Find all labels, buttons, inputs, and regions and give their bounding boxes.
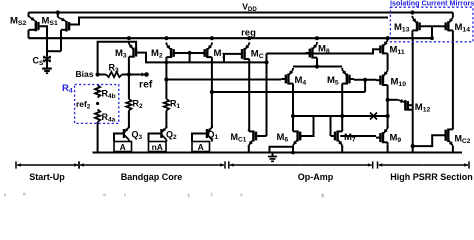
label M10 xyxy=(391,77,407,89)
wire M10 drain column xyxy=(387,87,389,128)
wire M7-M9 gate line xyxy=(340,135,376,137)
wire gate node drop xyxy=(189,53,191,62)
wire MC1 source xyxy=(248,146,250,153)
label M2 xyxy=(151,48,163,60)
node output net junction xyxy=(264,60,268,64)
box isolating mirrors dashed xyxy=(390,7,473,42)
node reg-M3 junction xyxy=(127,36,131,40)
wire R1 to Q2 xyxy=(165,111,167,129)
wire MS2 gate down xyxy=(38,26,47,56)
svg-text:A: A xyxy=(198,142,204,152)
label MS1 xyxy=(42,16,58,28)
wire Q3 emitter xyxy=(128,140,130,142)
label CS xyxy=(33,56,45,68)
wire MC gate jog xyxy=(224,54,238,63)
wire gates to reg drop xyxy=(431,26,433,38)
wire Q1 emitter xyxy=(211,140,213,142)
dimension high psrr xyxy=(378,161,470,168)
transistor MC xyxy=(238,42,250,61)
wire Q2 emitter xyxy=(165,140,167,142)
wire Q3 base xyxy=(114,134,123,142)
transistor M11 xyxy=(376,39,388,56)
transistor M6 xyxy=(293,130,305,148)
node bridge junction xyxy=(315,64,319,68)
node reg-M11 junction xyxy=(386,36,390,40)
svg-text:Bandgap Core: Bandgap Core xyxy=(121,172,183,182)
wire Q1 base xyxy=(192,134,206,142)
node gates-reg junction xyxy=(430,36,434,40)
transistor M7 xyxy=(331,130,343,148)
wire R4a to ground rail xyxy=(97,122,99,153)
box area nA Q2 xyxy=(149,142,167,152)
wire M7 gate stub xyxy=(330,116,332,136)
label reg xyxy=(241,28,256,39)
wire M6 source bend xyxy=(270,146,294,153)
node VDD-M13 junction xyxy=(410,10,414,14)
svg-text:High PSRR Section: High PSRR Section xyxy=(390,172,473,182)
box area A Q3 xyxy=(114,142,132,152)
transistor M9 xyxy=(376,127,388,145)
label M3 xyxy=(115,48,127,60)
wire M2 drain down xyxy=(165,59,167,99)
svg-text:nA: nA xyxy=(152,142,163,152)
transistor M12 xyxy=(398,99,413,111)
ground rail bottom xyxy=(93,151,463,153)
node M12 source tap xyxy=(386,98,390,102)
node gate junction xyxy=(188,51,192,55)
label M4 xyxy=(295,75,307,87)
transistor M2 xyxy=(166,43,178,60)
wire M12 source lead xyxy=(388,99,398,101)
node M6 source junction xyxy=(291,151,295,155)
label R3 xyxy=(109,63,120,75)
transistor M10 xyxy=(376,69,388,87)
transistor MC2 xyxy=(441,128,453,148)
label M11 xyxy=(390,45,405,57)
node reg-M8 junction xyxy=(315,36,319,40)
node M2 drain cross xyxy=(165,61,169,65)
wire VDD left drop xyxy=(28,13,30,17)
marker comp cross xyxy=(370,113,377,120)
wire MS1 drain to top line xyxy=(69,18,388,25)
label MC xyxy=(251,49,264,61)
wire M6 source drop xyxy=(292,147,294,153)
wire bias to M3 gate xyxy=(98,42,137,75)
label ref arrow xyxy=(137,73,146,77)
label M7 xyxy=(344,132,356,144)
label Q2 xyxy=(166,130,177,142)
wire M3 gate to output net xyxy=(141,53,267,63)
label VDD xyxy=(242,2,257,14)
label M12 xyxy=(415,102,431,114)
wire VDD right drop xyxy=(452,13,454,16)
wire Q2 base xyxy=(149,134,161,142)
label R4a xyxy=(102,112,116,124)
transistor M13 xyxy=(412,16,424,33)
svg-text:Start-Up: Start-Up xyxy=(29,172,65,182)
wire M8-M11 gate line xyxy=(267,49,376,53)
wire bias xyxy=(98,74,106,76)
label Bandgap Core xyxy=(121,172,183,182)
label M14 xyxy=(455,22,471,34)
dimension bandgap core xyxy=(79,161,225,168)
label R4 xyxy=(62,83,73,95)
label area A Q1 xyxy=(198,142,204,152)
label MS2 xyxy=(10,16,26,28)
label M5 xyxy=(327,75,339,87)
label R2 xyxy=(133,99,144,111)
transistor M4 xyxy=(281,68,293,86)
wire MS1 lower lead xyxy=(60,30,62,51)
node MC2 gate tap xyxy=(411,144,415,148)
transistor MS1 xyxy=(58,13,69,32)
wire to M4 gate xyxy=(166,79,281,81)
transistor M8 xyxy=(305,42,317,60)
wire MC2 gate route xyxy=(413,135,442,146)
label ref2 xyxy=(76,99,91,111)
capacitor CS xyxy=(42,56,52,73)
wire MC drain down xyxy=(248,61,250,130)
node ref2 xyxy=(96,102,99,105)
node M5 gate tap xyxy=(363,78,367,82)
transistor M1 xyxy=(200,43,212,60)
dimension start-up xyxy=(16,161,79,168)
transistor Q1 xyxy=(207,126,212,140)
wire M8 drain to bridge xyxy=(316,59,318,66)
power rail VDD xyxy=(29,11,453,13)
label isolating current mirrors xyxy=(390,0,474,8)
wire M4 drain to M6 drain xyxy=(292,86,294,131)
wire M7 source xyxy=(341,146,343,153)
resistor R4b xyxy=(95,85,100,98)
wire MC2 source to rail xyxy=(452,148,454,153)
ground symbol xyxy=(268,153,277,162)
node M4 drain junction xyxy=(291,114,295,118)
wire gate-node bottom xyxy=(47,50,61,52)
node bias junction xyxy=(96,72,100,76)
net reg rail xyxy=(29,37,433,39)
label Bias xyxy=(76,69,94,79)
wire M1 drain down xyxy=(211,59,213,128)
resistor R4a xyxy=(95,110,100,123)
wire M14 drain to MC2 drain xyxy=(452,32,454,127)
label M1 xyxy=(214,48,226,60)
transistor M14 xyxy=(441,16,453,33)
node M5 drain junction xyxy=(340,114,344,118)
transistor M5 xyxy=(342,68,354,86)
label ref xyxy=(139,79,153,91)
label MC1 xyxy=(231,132,247,144)
box area A Q1 xyxy=(192,142,210,152)
wire M6 diode connection xyxy=(301,116,313,136)
node ref xyxy=(144,72,149,77)
node comp junction xyxy=(386,114,390,118)
svg-text:Bias: Bias xyxy=(76,69,94,79)
resistor R2 xyxy=(126,99,131,111)
label Q3 xyxy=(132,130,143,142)
wire to M5-M10 gate tap xyxy=(212,91,365,93)
node reg-M1 junction xyxy=(210,36,214,40)
svg-text:ref: ref xyxy=(139,79,153,91)
wire M6 gate lead xyxy=(300,135,301,137)
node M2 drain tap xyxy=(164,77,168,81)
wire M13 drain / M12 column xyxy=(412,38,414,152)
svg-text:Isolating Current Mirrors: Isolating Current Mirrors xyxy=(390,0,474,8)
wire MS2 drain to reg xyxy=(28,30,30,38)
wire M11 drain to M10 source xyxy=(387,55,389,69)
node reg-MC junction xyxy=(247,36,251,40)
svg-text:Op-Amp: Op-Amp xyxy=(298,172,334,182)
wire R3 to ref node xyxy=(122,74,139,76)
wire M3 drain down xyxy=(128,59,130,99)
wire MC1 gate lead xyxy=(261,135,267,137)
label MC2 xyxy=(455,134,471,146)
box R4 dashed xyxy=(75,85,119,124)
label High PSRR Section xyxy=(390,172,473,182)
label M13 xyxy=(394,22,410,34)
label area nA Q2 xyxy=(152,142,163,152)
transistor M3 xyxy=(129,42,141,59)
transistor Q2 xyxy=(161,126,166,140)
wire source bridge xyxy=(293,66,342,68)
label M9 xyxy=(390,133,402,145)
label M8 xyxy=(318,44,330,56)
label Op-Amp xyxy=(298,172,334,182)
node ref junction xyxy=(127,72,131,76)
wire M5 drain to M7 drain xyxy=(341,86,343,131)
transistor MS2 xyxy=(29,16,39,31)
resistor R1 xyxy=(164,99,169,111)
node reg-M2 junction xyxy=(164,36,168,40)
wire output mirror line xyxy=(293,115,388,117)
caption ghost (cropped text) xyxy=(4,193,324,198)
dimension op-amp xyxy=(229,161,373,168)
transistor MC1 xyxy=(249,130,261,148)
transistor Q3 xyxy=(124,126,129,140)
node VDD-MS1 junction xyxy=(56,10,60,14)
label area A Q3 xyxy=(120,142,126,152)
svg-text:A: A xyxy=(120,142,126,152)
resistor R3 xyxy=(106,72,122,77)
label R1 xyxy=(170,99,181,111)
label Start-Up xyxy=(29,172,65,182)
node M1 drain tap xyxy=(210,90,214,94)
wire output net down to MC1 gate xyxy=(266,54,268,137)
wire M13-M14 gates xyxy=(424,25,441,27)
wire M9 source to rail xyxy=(387,144,389,152)
wire R2 to Q3 xyxy=(128,111,130,129)
label R4b xyxy=(102,89,116,101)
wire M5 gate to M10 gate xyxy=(354,79,377,81)
label Q1 xyxy=(208,130,219,142)
wire gate tap down xyxy=(364,80,366,92)
wire M2-M1 gates xyxy=(178,52,200,54)
label M6 xyxy=(277,132,289,144)
wire M13 drain to reg xyxy=(411,32,413,38)
